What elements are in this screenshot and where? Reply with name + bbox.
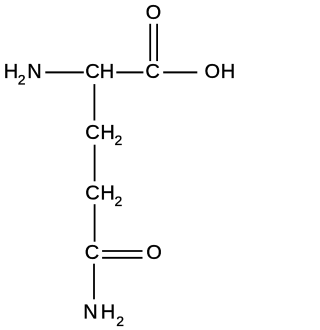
svg-text:2: 2 bbox=[115, 132, 123, 148]
wire CH-CH2 bbox=[93, 84, 95, 120]
svg-text:C: C bbox=[85, 183, 99, 205]
svg-text:H: H bbox=[101, 302, 115, 324]
svg-text:O: O bbox=[146, 2, 162, 24]
svg-text:O: O bbox=[146, 242, 162, 264]
svg-text:C: C bbox=[85, 61, 99, 83]
svg-text:H: H bbox=[100, 183, 114, 205]
svg-text:H: H bbox=[4, 61, 18, 83]
svg-text:H: H bbox=[100, 61, 114, 83]
wire N-CH bbox=[45, 71, 84, 73]
wire CH2-C bbox=[94, 204, 96, 242]
wire C-OH bbox=[163, 71, 197, 73]
double bond C=O (bottom) bbox=[102, 250, 142, 252]
svg-text:H: H bbox=[100, 122, 114, 144]
svg-text:C: C bbox=[85, 122, 99, 144]
wire C-NH2 bbox=[93, 264, 95, 300]
svg-text:2: 2 bbox=[115, 193, 123, 209]
svg-text:N: N bbox=[27, 61, 41, 83]
svg-text:2: 2 bbox=[18, 71, 26, 87]
svg-text:2: 2 bbox=[116, 313, 124, 329]
svg-text:O: O bbox=[205, 61, 221, 83]
svg-text:C: C bbox=[145, 61, 159, 83]
svg-text:H: H bbox=[221, 61, 235, 83]
svg-text:C: C bbox=[85, 242, 99, 264]
double bond C=O (top) bbox=[149, 24, 151, 61]
wire CH2-CH2 bbox=[94, 145, 96, 182]
wire CH-C bbox=[116, 71, 143, 73]
svg-text:N: N bbox=[83, 302, 97, 324]
